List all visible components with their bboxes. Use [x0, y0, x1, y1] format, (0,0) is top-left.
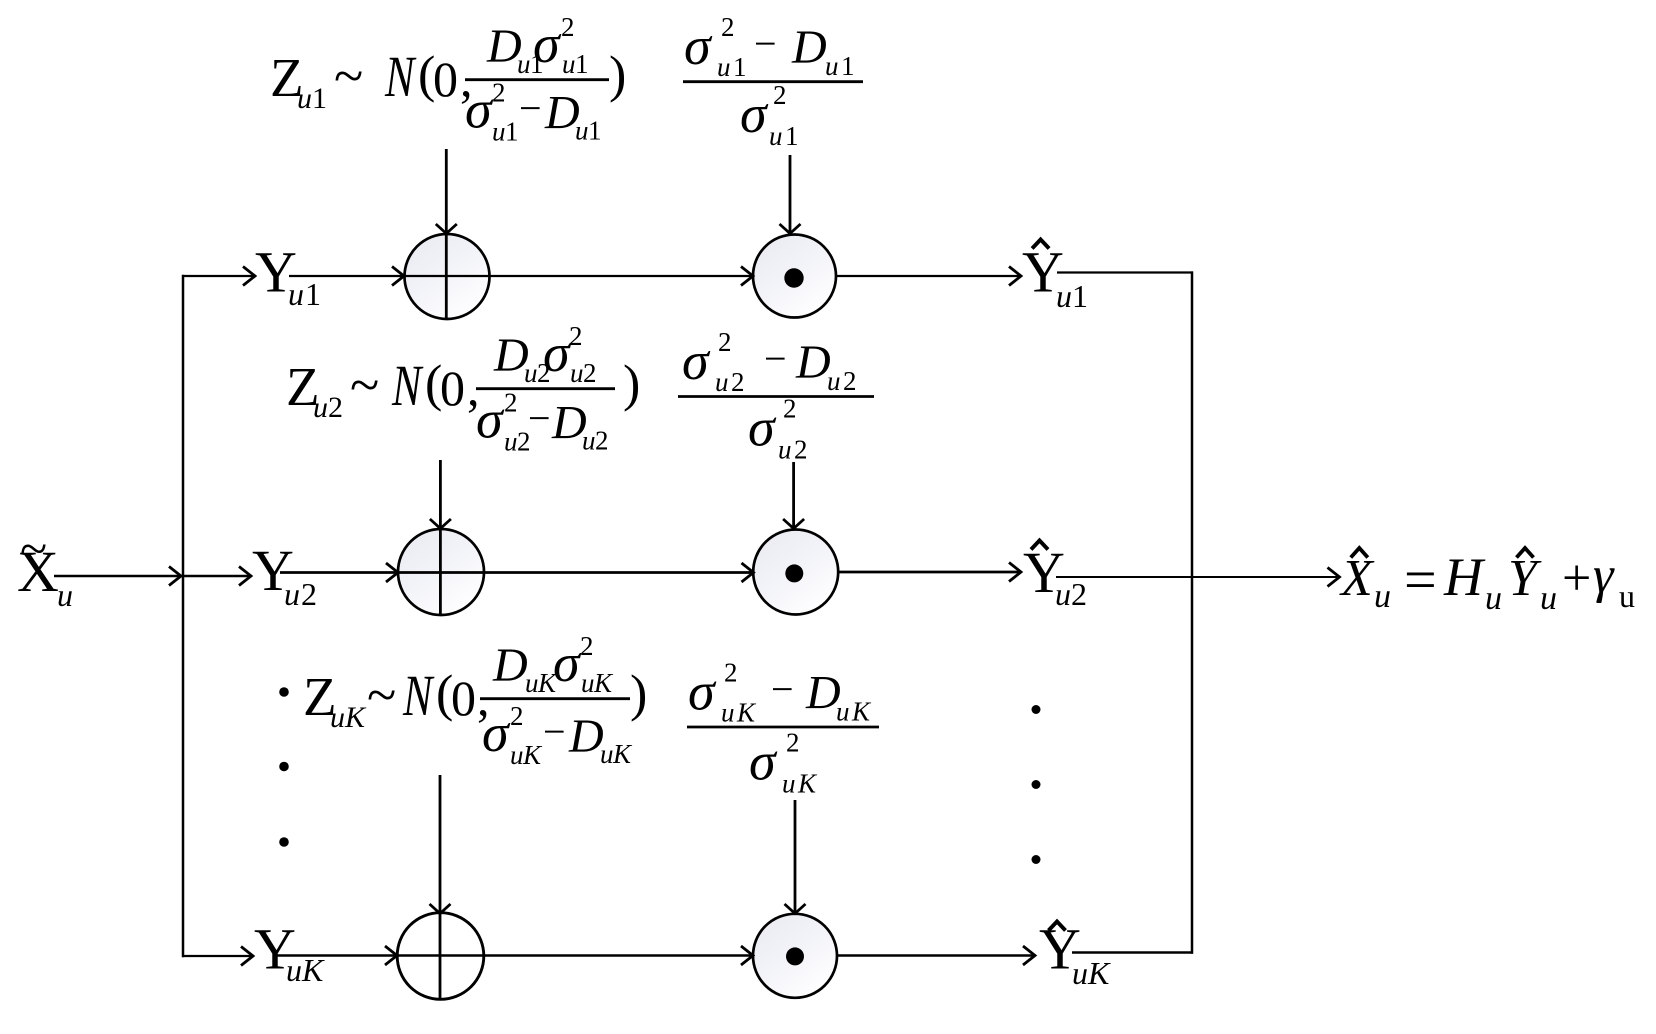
svg-text:D: D — [791, 21, 827, 74]
svg-text:σ: σ — [553, 633, 582, 693]
adder S2 (circle-plus) — [398, 529, 484, 615]
svg-text:2: 2 — [773, 80, 787, 110]
svg-text:u: u — [836, 697, 850, 727]
svg-text:2: 2 — [721, 12, 735, 42]
svg-text:−: − — [543, 709, 566, 754]
svg-text:K: K — [301, 952, 325, 988]
svg-text:u: u — [715, 367, 729, 397]
multiplier M3 (circle-dot) — [753, 914, 837, 998]
svg-text:2: 2 — [561, 12, 575, 42]
svg-text:u: u — [721, 698, 735, 728]
svg-text:u: u — [582, 426, 596, 456]
svg-text:2: 2 — [583, 358, 597, 388]
svg-text:u: u — [769, 121, 783, 151]
svg-text:γ: γ — [1593, 547, 1615, 604]
arrowhead into node Yu2 — [239, 567, 251, 586]
svg-text:~: ~ — [350, 355, 379, 415]
svg-text:u: u — [1540, 580, 1557, 617]
wire: right collection bus (vertical) — [1191, 271, 1194, 953]
svg-text:2: 2 — [731, 367, 745, 397]
multiplier M2 (circle-dot) — [753, 530, 838, 615]
svg-text:σ: σ — [476, 390, 505, 450]
svg-text:2: 2 — [783, 394, 797, 424]
svg-text:u: u — [330, 701, 345, 734]
svg-text:H: H — [1443, 547, 1486, 607]
arrowhead into Y^uK — [1023, 946, 1035, 965]
svg-text:2: 2 — [1071, 576, 1087, 612]
arrowhead into Y^u1 — [1009, 267, 1021, 286]
arrowhead into adder S3 — [385, 946, 397, 965]
gain label (s_uK^2 - D_uK)/s_uK^2 — [687, 658, 879, 799]
svg-text:K: K — [522, 740, 543, 770]
svg-text:u: u — [284, 576, 300, 612]
svg-text:σ: σ — [749, 732, 778, 792]
svg-text:σ: σ — [688, 662, 717, 722]
input X~u — [17, 520, 73, 613]
svg-text:−: − — [519, 86, 542, 131]
wire: X~u input to junction and on to Yu2 — [54, 575, 251, 578]
svg-text:=: = — [1404, 547, 1437, 612]
svg-text:u: u — [288, 276, 304, 312]
svg-text:1: 1 — [841, 51, 855, 81]
wire: M1 output to Y^u1 — [836, 275, 1021, 277]
svg-text:2: 2 — [510, 701, 524, 731]
svg-text:u: u — [504, 427, 518, 457]
noise arrow Z1 into adder S1 — [436, 149, 457, 319]
svg-text:u: u — [575, 116, 589, 146]
svg-text:σ: σ — [748, 398, 777, 458]
arrowhead into multiplier M2 — [742, 563, 754, 582]
svg-text:): ) — [623, 356, 640, 413]
gain arrow into multiplier M3 — [785, 800, 806, 914]
noise label Z_u2 ~ N(0, Du2 s2/(s2-Du2)) — [286, 321, 640, 457]
svg-text:u: u — [827, 366, 841, 396]
wire: M2 output to Y^u2 — [838, 571, 1021, 574]
svg-text:1: 1 — [305, 276, 321, 312]
svg-text:σ: σ — [533, 14, 562, 74]
svg-text:2: 2 — [786, 728, 800, 758]
svg-text:2: 2 — [301, 576, 317, 612]
gain arrow into multiplier M2 — [783, 462, 804, 529]
noise label Z_uK ~ N(0, DuK s2/(s2-DuK)) — [303, 631, 647, 770]
svg-text:~: ~ — [367, 665, 396, 725]
svg-text:2: 2 — [328, 391, 343, 424]
svg-text:1: 1 — [588, 116, 602, 146]
wire: bus to node YuK — [182, 955, 253, 957]
noise label Z_u1 ~ N(0, Du1 s2/(s2-Du1)) — [270, 12, 626, 147]
svg-text:2: 2 — [724, 658, 738, 688]
svg-text:N: N — [391, 354, 424, 418]
wire: left distribution bus (vertical) — [182, 275, 185, 957]
wire: Y^uK to right bus — [1072, 951, 1193, 954]
arrowhead into multiplier M3 — [741, 946, 753, 965]
svg-text:0: 0 — [440, 360, 465, 416]
svg-text:u: u — [1619, 578, 1635, 614]
svg-text:2: 2 — [504, 388, 518, 418]
svg-text:K: K — [612, 739, 633, 769]
svg-text:K: K — [344, 701, 367, 734]
svg-text:u: u — [825, 51, 839, 81]
svg-text:N: N — [402, 664, 435, 728]
svg-text:σ: σ — [465, 80, 494, 140]
svg-text:~: ~ — [20, 520, 47, 576]
svg-text:2: 2 — [843, 366, 857, 396]
svg-text:u: u — [286, 952, 302, 988]
wire: YuK to multiplier M3 through adder S3 — [276, 954, 753, 957]
svg-text:u: u — [297, 82, 312, 115]
svg-text:Y: Y — [1508, 550, 1542, 607]
svg-text:u: u — [57, 577, 73, 613]
gain label (s_u2^2 - D_u2)/s_u2^2 — [678, 327, 874, 465]
wire: Y^u2 through right bus to output X^u — [1056, 576, 1339, 578]
node Y^u2 — [1023, 540, 1087, 612]
svg-text:u: u — [492, 117, 506, 147]
svg-text:σ: σ — [682, 331, 711, 391]
svg-text:0: 0 — [433, 51, 458, 107]
svg-text:): ) — [609, 47, 626, 104]
svg-text:u: u — [525, 668, 539, 698]
svg-text:1: 1 — [312, 82, 327, 115]
arrowhead into output X^u — [1328, 568, 1340, 587]
vertical ellipsis left — [279, 687, 289, 847]
svg-text:D: D — [568, 710, 604, 763]
svg-text:1: 1 — [575, 49, 589, 79]
svg-text:): ) — [630, 666, 647, 723]
svg-text:u: u — [581, 668, 595, 698]
noise arrow Z2 into adder S2 — [430, 460, 451, 616]
svg-text:u: u — [782, 769, 796, 799]
wire: Yu2 to multiplier M2 through adder S2 — [280, 571, 754, 574]
junction arrowhead into left bus — [169, 567, 181, 586]
svg-text:u: u — [1485, 580, 1502, 617]
svg-text:σ: σ — [543, 323, 572, 383]
svg-text:1: 1 — [733, 52, 747, 82]
node Y^uK — [1039, 917, 1111, 992]
svg-text:D: D — [795, 336, 831, 389]
node YuK — [254, 917, 325, 989]
output equation X^u = Hu Y^u + gamma_u — [1339, 547, 1635, 617]
svg-text:K: K — [1087, 955, 1111, 991]
wire: Y^u1 to right bus — [1057, 271, 1193, 273]
svg-text:u: u — [517, 49, 531, 79]
svg-text:1: 1 — [1072, 278, 1088, 314]
node Y^u1 — [1022, 240, 1088, 315]
svg-text:u: u — [510, 740, 524, 770]
svg-text:u: u — [1056, 278, 1072, 314]
svg-text:1: 1 — [505, 117, 519, 147]
svg-text:u: u — [717, 52, 731, 82]
svg-text:−: − — [754, 21, 777, 66]
svg-text:N: N — [384, 45, 417, 109]
svg-text:u: u — [1374, 578, 1391, 615]
svg-text:2: 2 — [794, 435, 808, 465]
svg-text:−: − — [771, 667, 794, 712]
vertical ellipsis right — [1032, 705, 1041, 864]
arrowhead into Y^u2 — [1009, 563, 1021, 582]
svg-text:−: − — [528, 396, 551, 441]
svg-text:0: 0 — [451, 670, 476, 726]
svg-text:u: u — [778, 435, 792, 465]
svg-text:u: u — [313, 391, 328, 424]
adder S3 (circle-plus) — [397, 913, 484, 1000]
gain arrow into multiplier M1 — [780, 155, 801, 234]
svg-text:2: 2 — [580, 631, 594, 661]
svg-text:2: 2 — [492, 78, 506, 108]
svg-text:σ: σ — [482, 703, 511, 763]
noise arrow ZK into adder S3 — [430, 775, 451, 999]
wire: bus to node Yu1 — [183, 275, 255, 277]
svg-text:2: 2 — [569, 321, 583, 351]
svg-text:K: K — [797, 769, 818, 799]
node Yu1 — [255, 240, 321, 313]
svg-text:σ: σ — [740, 84, 769, 144]
svg-text:u: u — [1055, 576, 1071, 612]
adder S1 (circle-plus) — [405, 234, 490, 319]
svg-text:K: K — [851, 697, 872, 727]
svg-text:−: − — [764, 336, 787, 381]
svg-text:u: u — [1072, 955, 1088, 991]
arrowhead into multiplier M1 — [741, 267, 753, 286]
arrowhead into node YuK — [241, 947, 253, 966]
arrowhead into adder S2 — [386, 563, 398, 582]
node Yu2 — [252, 538, 317, 612]
wire: Yu1 to multiplier M1 through adder S1 — [289, 275, 753, 277]
svg-text:D: D — [492, 639, 528, 692]
svg-text:K: K — [593, 668, 614, 698]
svg-text:u: u — [600, 739, 614, 769]
svg-text:2: 2 — [595, 426, 609, 456]
svg-text:K: K — [736, 698, 757, 728]
arrowhead into adder S1 — [392, 267, 404, 286]
svg-text:~: ~ — [334, 46, 363, 106]
svg-text:u: u — [570, 358, 584, 388]
svg-text:σ: σ — [684, 16, 713, 76]
svg-text:+: + — [1562, 550, 1591, 607]
multiplier M1 (circle-dot) — [753, 235, 836, 318]
wire: M3 output to Y^uK — [837, 954, 1035, 957]
arrowhead into node Yu1 — [243, 267, 255, 286]
svg-text:u: u — [562, 49, 576, 79]
svg-text:u: u — [524, 358, 538, 388]
svg-text:2: 2 — [718, 327, 732, 357]
svg-text:1: 1 — [785, 121, 799, 151]
gain label (s_u1^2 - D_u1)/s_u1^2 — [683, 12, 863, 151]
svg-text:X: X — [1339, 550, 1375, 607]
